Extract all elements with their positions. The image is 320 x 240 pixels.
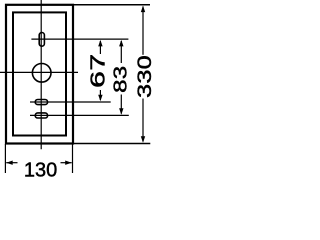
bottom slot hole 2 [35, 113, 47, 118]
arrowhead 67 bottom [98, 95, 102, 102]
outer plate outline [6, 5, 73, 144]
center/extension line from bottom slot 1 [30, 101, 111, 103]
top slot hole [39, 33, 44, 47]
130 right extension line [72, 144, 74, 173]
arrowhead 130 left [6, 161, 13, 165]
vertical center line [40, 0, 42, 149]
dimension line 67 upper segment [99, 41, 101, 54]
dimension line 67 lower segment [99, 90, 101, 100]
dimension line 330 lower segment [142, 99, 144, 142]
svg-text:330: 330 [134, 55, 156, 98]
svg-text:130: 130 [24, 160, 57, 182]
horizontal center line through circle [0, 71, 78, 73]
130 dimension line right segment [61, 162, 72, 164]
center circle hole [32, 64, 51, 83]
arrowhead 67 top [98, 40, 102, 47]
arrowhead 130 right [65, 161, 72, 165]
arrowhead 330 bottom [141, 136, 145, 143]
center/extension line from bottom slot 2 [30, 114, 129, 116]
dimension line 83 lower segment [120, 95, 122, 114]
dimension line 330 upper segment [142, 7, 144, 55]
bottom slot hole 1 [35, 100, 47, 105]
130 left extension line [4, 144, 6, 173]
top edge extension line [73, 4, 150, 6]
dimension line 83 upper segment [120, 41, 122, 63]
arrowhead 83 top [119, 40, 123, 47]
arrowhead 330 top [141, 6, 145, 13]
svg-text:83: 83 [110, 66, 131, 93]
center/extension line from top slot [31, 38, 128, 40]
bottom edge extension line [73, 143, 150, 145]
inner plate outline [13, 12, 66, 135]
arrowhead 83 bottom [119, 108, 123, 115]
svg-text:67: 67 [87, 54, 109, 88]
130 dimension line left segment [6, 162, 17, 164]
